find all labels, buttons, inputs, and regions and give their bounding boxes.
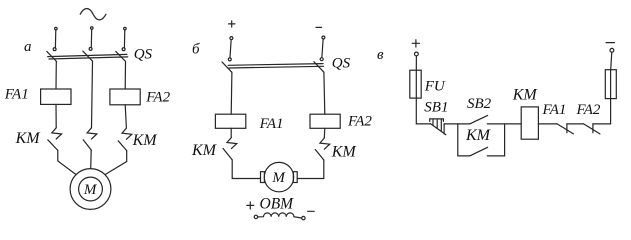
pole1 blade — [47, 51, 57, 61]
fuse FA1 — [41, 89, 71, 104]
KM holding loop bottom right wire — [487, 155, 504, 157]
SB1 right stub — [443, 124, 445, 134]
svg-text:М: М — [83, 182, 98, 198]
KM contact 2 arc arrow — [87, 128, 97, 139]
pole1 jaw circle — [53, 48, 56, 51]
svg-text:КМ: КМ — [512, 86, 539, 103]
KM-b left arc arrow — [227, 137, 237, 148]
FA1 NC contact stub — [566, 124, 568, 133]
KM holding loop bottom left wire — [458, 155, 470, 157]
FA1 NC contact blade — [557, 124, 574, 134]
switch QS pole 1 terminal circle — [55, 27, 58, 30]
svg-text:КМ: КМ — [15, 130, 42, 147]
plus sign (circuit b) — [229, 21, 235, 27]
svg-text:ОВМ: ОВМ — [260, 195, 295, 212]
FA2 NC contact blade — [583, 124, 600, 134]
wire KM-b left to motor — [232, 160, 260, 179]
fuse FA2 — [110, 89, 140, 105]
wire pole1 down to FA1 — [55, 62, 57, 89]
pole2 jaw circle — [320, 58, 323, 61]
motor M outer circle — [70, 169, 111, 210]
OVM winding left terminal — [254, 215, 257, 218]
SB1 blade — [430, 124, 446, 135]
terminal circle plus — [415, 52, 419, 56]
svg-text:SB2: SB2 — [467, 96, 492, 112]
svg-text:б: б — [192, 42, 200, 58]
SB1 button actuator — [430, 119, 444, 131]
svg-text:М: М — [271, 170, 286, 186]
wire through FU — [415, 70, 417, 98]
wire FA1 to FA2 contact — [567, 123, 584, 125]
wire FA2-b to KM contact — [323, 128, 326, 138]
wire KM coil to FA1 contact — [538, 123, 557, 125]
pole1 blade — [222, 62, 232, 73]
AC source tilde — [80, 9, 106, 20]
KM holding loop right riser — [504, 124, 506, 156]
KM contact 2 blade — [83, 140, 91, 151]
KM holding contact blade — [470, 147, 488, 156]
wire pole1 lead — [54, 30, 56, 48]
svg-text:FA2: FA2 — [347, 113, 372, 129]
fuse FA1-b — [215, 114, 245, 128]
wire SB2 to KM coil — [487, 123, 521, 125]
motor M-b left brush — [261, 172, 265, 183]
pole3 jaw circle — [122, 48, 125, 51]
fuse FU — [410, 70, 421, 98]
OVM winding right terminal — [302, 216, 305, 219]
svg-text:FA1: FA1 — [259, 116, 284, 132]
wire KM-b right to motor — [297, 160, 324, 179]
SB2 blade — [470, 115, 488, 124]
wire SB1 to SB2 — [444, 123, 470, 125]
wire through right fuse — [610, 70, 612, 99]
OVM winding — [258, 213, 302, 218]
OVM minus — [308, 210, 315, 212]
wire FA2 to KM contact 3 — [125, 105, 126, 128]
pole2 blade — [314, 62, 324, 72]
svg-text:а: а — [24, 39, 32, 55]
pole2 jaw circle — [89, 47, 92, 50]
svg-text:FA2: FA2 — [145, 90, 170, 106]
wire FA1 to KM contact 1 — [55, 104, 57, 127]
svg-text:FU: FU — [424, 79, 446, 95]
svg-text:QS: QS — [332, 55, 351, 71]
terminal circle minus — [610, 48, 614, 52]
KM-b left blade — [223, 148, 232, 160]
KM-b right blade — [315, 150, 324, 161]
wire pole2 lead — [90, 29, 92, 47]
switch QS-b pole 1 terminal circle — [230, 37, 233, 40]
switch QS pole 3 terminal circle — [124, 27, 127, 30]
KM coil — [521, 107, 538, 139]
KM contact 1 arc arrow — [52, 128, 62, 139]
svg-text:FA2: FA2 — [576, 102, 601, 118]
fuse right — [605, 70, 616, 99]
svg-text:КМ: КМ — [465, 127, 492, 144]
QS-b linkage bar — [228, 64, 323, 66]
svg-text:в: в — [377, 47, 384, 63]
pole2 blade — [83, 51, 93, 61]
svg-text:КМ: КМ — [191, 142, 218, 159]
svg-text:КМ: КМ — [331, 144, 358, 161]
QS linkage bar — [48, 54, 127, 56]
wire pole3 down to FA2 — [124, 62, 126, 89]
fuse FA2-b — [310, 114, 340, 128]
KM contact 3 arc arrow — [122, 128, 132, 139]
motor M-b circle — [264, 162, 293, 191]
wire pole2 down to KM contact — [92, 61, 93, 128]
motor M-b right brush — [293, 172, 297, 183]
switch QS pole 2 terminal circle — [91, 27, 94, 30]
svg-text:КМ: КМ — [132, 132, 159, 149]
switch QS-b pole 2 terminal circle — [322, 36, 325, 39]
KM-b right arc arrow — [320, 138, 330, 149]
svg-text:FA1: FA1 — [4, 87, 29, 103]
minus sign (circuit v) — [606, 42, 614, 44]
wire pole2 lead — [322, 40, 323, 57]
wire FU down and corner — [416, 98, 430, 124]
pole1 jaw circle — [228, 58, 231, 61]
wire KM2 to motor — [90, 150, 93, 168]
wire pole3 lead — [123, 30, 125, 48]
wire pole1 down to FA1-b — [230, 72, 233, 114]
OVM plus — [247, 202, 254, 209]
FA2 NC contact stub — [592, 124, 594, 133]
svg-text:FA1: FA1 — [542, 102, 567, 118]
wire right fuse to terminal — [611, 52, 612, 69]
wire to FU — [415, 56, 417, 70]
svg-text:SB1: SB1 — [424, 99, 448, 115]
wire KM3 to motor — [105, 151, 127, 175]
KM contact 3 blade — [118, 141, 127, 151]
wire pole2 down to FA2-b — [323, 72, 326, 114]
wire pole1 lead — [230, 41, 231, 58]
minus sign (circuit b) — [316, 26, 322, 28]
wire FA1-b to KM contact — [230, 128, 232, 137]
KM contact 1 blade — [48, 140, 58, 151]
junction to KM holding contact — [457, 124, 459, 156]
pole3 blade — [116, 51, 126, 61]
plus sign (circuit v) — [412, 40, 419, 47]
wire KM1 to motor — [58, 150, 76, 174]
svg-text:QS: QS — [134, 46, 153, 62]
wire FA2 to right riser — [593, 99, 611, 124]
motor M inner circle — [79, 177, 103, 201]
